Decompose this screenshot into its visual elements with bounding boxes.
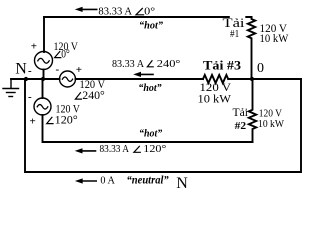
svg-text:240°: 240° xyxy=(82,90,105,102)
svg-text:10 kW: 10 kW xyxy=(198,94,232,106)
svg-text:0: 0 xyxy=(257,61,264,76)
svg-text:“hot”: “hot” xyxy=(139,127,163,139)
svg-text:0 A: 0 A xyxy=(100,175,115,187)
svg-text:Tải #3: Tải #3 xyxy=(203,59,241,73)
svg-text:-: - xyxy=(28,65,32,77)
svg-text:+: + xyxy=(31,40,37,52)
svg-text:+: + xyxy=(76,64,82,76)
svg-text:“hot”: “hot” xyxy=(139,19,163,31)
svg-text:Tải: Tải xyxy=(233,107,249,119)
svg-text:-: - xyxy=(56,64,60,76)
svg-text:N: N xyxy=(176,175,188,192)
svg-text:“neutral”: “neutral” xyxy=(127,173,169,187)
svg-text:0°: 0° xyxy=(144,6,155,18)
svg-text:+: + xyxy=(30,115,36,127)
svg-text:120°: 120° xyxy=(143,143,166,155)
svg-text:240°: 240° xyxy=(157,58,181,70)
svg-text:120 V: 120 V xyxy=(200,80,232,94)
svg-text:#1: #1 xyxy=(230,29,239,40)
svg-text:120°: 120° xyxy=(55,115,78,127)
svg-text:10 kW: 10 kW xyxy=(258,118,285,130)
svg-text:83.33 A: 83.33 A xyxy=(100,143,130,155)
svg-text:83.33 A: 83.33 A xyxy=(98,6,132,18)
svg-text:10 kW: 10 kW xyxy=(260,33,289,45)
svg-text:Tải: Tải xyxy=(223,15,245,30)
svg-text:#2: #2 xyxy=(235,121,247,132)
svg-text:N: N xyxy=(15,60,27,77)
svg-text:-: - xyxy=(28,91,32,103)
svg-text:83.33 A: 83.33 A xyxy=(112,58,144,70)
svg-text:“hot”: “hot” xyxy=(138,82,162,94)
svg-text:0°: 0° xyxy=(61,49,70,61)
